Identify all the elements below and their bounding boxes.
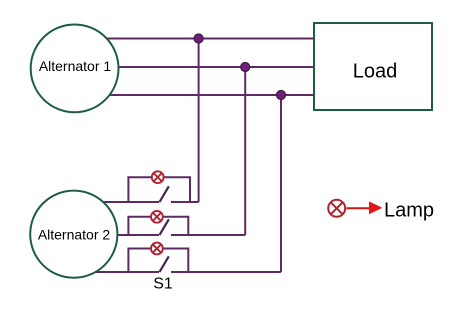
wire: row 1 main left segment from alternator 2 — [74, 201, 159, 203]
wire: lamp branch loop row 2 — [128, 217, 188, 235]
lamp L2 (row 2) — [151, 211, 163, 223]
legend lamp symbol — [328, 200, 345, 217]
load box — [314, 23, 432, 110]
svg-text:Alternator 1: Alternator 1 — [39, 58, 112, 74]
wire: row 2 main left segment from alternator 2 — [74, 234, 159, 236]
wire: vertical drop A from node 1 to switch row 1 — [198, 39, 200, 203]
lamp L3 (row 3) — [151, 243, 163, 255]
wire: vertical drop C from node 3 to switch row 3 — [280, 95, 282, 272]
svg-text:Lamp: Lamp — [384, 200, 434, 222]
wire: vertical drop B from node 2 to switch row 2 — [244, 67, 246, 235]
wire: row 1 main right segment — [171, 201, 199, 203]
wire: row 2 main right segment — [171, 234, 245, 236]
switch S1 blade row 2 — [160, 219, 169, 235]
wire: alternator 1 line 2 to Load — [75, 66, 314, 68]
wire: row 3 main right segment — [171, 271, 281, 273]
wire: lamp branch loop row 3 — [128, 249, 188, 273]
wire: lamp branch loop row 1 — [128, 177, 190, 202]
alternator 1 circle — [31, 25, 119, 113]
alternator 2 circle — [30, 191, 117, 278]
switch S1 blade row 1 — [160, 186, 169, 202]
svg-text:Alternator 2: Alternator 2 — [38, 227, 111, 243]
lamp L1 (row 1) — [152, 171, 164, 183]
legend arrow — [347, 207, 370, 209]
node A junction dot — [194, 34, 203, 43]
wire: alternator 1 line 1 to Load — [75, 38, 314, 40]
svg-text:S1: S1 — [153, 275, 173, 292]
switch S1 blade row 3 — [160, 256, 169, 272]
wire: alternator 1 line 3 to Load — [75, 94, 314, 96]
node B junction dot — [241, 62, 250, 71]
legend arrowhead — [369, 201, 382, 214]
node C junction dot — [276, 90, 285, 99]
svg-text:Load: Load — [353, 60, 398, 82]
wire: row 3 main left segment from alternator 2 — [74, 271, 159, 273]
